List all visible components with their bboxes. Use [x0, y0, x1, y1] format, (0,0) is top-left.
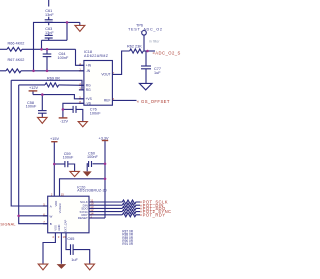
svg-text:A: A	[50, 205, 52, 209]
ground under C58	[38, 117, 48, 123]
svg-text:R66 4K02: R66 4K02	[8, 42, 25, 46]
svg-text:B: B	[50, 222, 52, 226]
svg-text:VOUT: VOUT	[101, 73, 110, 77]
svg-text:100nF: 100nF	[87, 155, 98, 159]
test point TP6	[142, 31, 147, 36]
resistor R69	[45, 83, 59, 87]
pin EXT_CAP stub down	[66, 233, 70, 250]
svg-text:RG: RG	[86, 84, 91, 88]
pin 2 stub	[79, 84, 84, 86]
resistor R88	[122, 203, 140, 207]
ground EXT_CAP	[85, 264, 95, 270]
svg-text:«POT_RDY: «POT_RDY	[140, 212, 166, 217]
svg-text:15: 15	[61, 192, 65, 196]
resistor R67	[6, 69, 21, 73]
svg-text:AD5293BRUZ-20: AD5293BRUZ-20	[77, 189, 107, 193]
pin VSS stub down	[43, 233, 55, 264]
ground GND filled	[57, 264, 67, 269]
resistor R66	[7, 47, 22, 51]
navy labels	[8, 9, 163, 262]
digital pot IC20 box	[48, 196, 89, 233]
capacitor C59	[54, 163, 64, 165]
svg-text:GND: GND	[57, 225, 61, 231]
svg-text:RESET: RESET	[78, 216, 88, 220]
pin B stub	[43, 223, 48, 225]
capacitor C60	[93, 163, 106, 165]
wire -VS riser	[63, 103, 84, 117]
svg-text:4: 4	[52, 235, 54, 239]
svg-text:1uF: 1uF	[71, 258, 78, 262]
wire VLOGIC feed	[60, 179, 106, 196]
wire R69 to pin2	[59, 84, 84, 86]
svg-text:VLOGIC: VLOGIC	[58, 203, 62, 213]
pin W stub	[43, 215, 48, 217]
wire RG loop top	[11, 80, 84, 90]
red net labels	[0, 50, 186, 226]
capacitor C64	[46, 49, 48, 54]
resistor R87	[122, 200, 140, 204]
capacitor C58	[41, 95, 43, 111]
ground under C59	[70, 171, 80, 176]
svg-text:-12V: -12V	[60, 120, 68, 124]
pin DIN wire	[89, 204, 122, 206]
svg-text:100nF: 100nF	[26, 105, 37, 109]
svg-text:13nF: 13nF	[45, 31, 54, 35]
svg-text:EXT_CAP: EXT_CAP	[63, 220, 67, 232]
resistor R62	[130, 49, 144, 53]
op-amp U1 IC18 box	[84, 61, 113, 106]
svg-text:3: 3	[58, 235, 60, 239]
capacitor C65	[70, 244, 72, 255]
resistor R91	[122, 213, 140, 217]
wire node A to +IN jog	[22, 48, 76, 50]
svg-text:+3.3V: +3.3V	[99, 137, 109, 141]
svg-text:AD622ARMZ: AD622ARMZ	[84, 54, 109, 58]
capacitor C76	[63, 108, 73, 110]
wire R66 left lead	[0, 48, 7, 50]
svg-text:+VS: +VS	[86, 97, 93, 101]
red pin numbers	[43, 62, 114, 239]
svg-text:VDD: VDD	[54, 201, 58, 207]
wire riser x33	[34, 22, 80, 70]
wire ground stub top	[79, 22, 81, 25]
capacitor C61	[48, 0, 50, 7]
wire W tap	[19, 215, 48, 217]
pin 4 stub	[79, 64, 84, 66]
svg-text:TEST_ADC_O2: TEST_ADC_O2	[128, 27, 163, 31]
wire node B to -IN	[21, 70, 84, 72]
wire +3.3V stem	[104, 141, 106, 218]
pin RESET wire	[89, 217, 105, 219]
svg-text:-VS: -VS	[86, 102, 92, 106]
svg-text:100nF: 100nF	[63, 155, 74, 159]
svg-text:16: 16	[63, 235, 67, 239]
pin GND stub down	[60, 233, 62, 264]
pin 1 stub	[79, 70, 84, 72]
svg-text:13nF: 13nF	[45, 13, 54, 17]
resistor R89	[122, 206, 140, 210]
pin A stub	[43, 205, 48, 207]
power bar +12V	[29, 90, 38, 92]
svg-text:in filter: in filter	[149, 40, 160, 44]
wire RG lower with resistor R69	[19, 84, 45, 86]
wire VOUT riser	[112, 51, 129, 74]
svg-text:100nF: 100nF	[58, 56, 69, 60]
svg-text:R67 4K02: R67 4K02	[8, 58, 25, 62]
svg-text:RG: RG	[86, 88, 91, 92]
wire +IN jog vertical	[76, 49, 84, 65]
wire C63 bottom rail	[42, 39, 68, 41]
wire loop to node X	[66, 22, 68, 40]
power/ground symbols in maroon	[29, 25, 109, 270]
svg-text:1uF: 1uF	[154, 71, 161, 75]
wire +12V rail to pin5	[32, 91, 34, 95]
ground under C77	[139, 83, 152, 90]
wire jog to node A	[41, 40, 43, 49]
power bar +3.3V	[102, 140, 108, 142]
rotated pin names IC20	[54, 201, 68, 232]
svg-text:R69 0R: R69 0R	[47, 76, 60, 80]
svg-text:_SIGNAL: _SIGNAL	[0, 222, 16, 226]
capacitor C77	[145, 51, 147, 66]
pin 3 stub	[79, 89, 84, 91]
svg-text:C65: C65	[67, 237, 74, 241]
svg-text:R62 23K: R62 23K	[127, 45, 142, 49]
power bar -12V	[59, 117, 68, 119]
svg-text:« GS_OFFSET: « GS_OFFSET	[137, 99, 170, 104]
ground top right	[75, 25, 85, 31]
svg-text:+IN: +IN	[86, 64, 92, 68]
svg-text:+12V: +12V	[29, 86, 38, 90]
ground under C76	[78, 122, 87, 127]
wire REF to GS_OFFSET	[112, 99, 136, 101]
pin 8 stub	[79, 102, 84, 104]
svg-text:W: W	[50, 214, 53, 218]
svg-text:-IN: -IN	[86, 69, 91, 73]
wire R62 to label	[143, 50, 155, 52]
resistor R90	[122, 210, 140, 214]
wire R67 left lead	[0, 70, 6, 72]
pin RDY wire	[89, 214, 122, 216]
ground under C60 filled	[83, 171, 92, 176]
capacitor C63	[48, 22, 50, 25]
wire long vertical 2	[19, 85, 48, 224]
pin SDO wire	[89, 207, 122, 209]
svg-text:«ADC_O2_SIG: «ADC_O2_SIG	[153, 50, 182, 55]
IC pin name texts	[50, 64, 111, 227]
svg-text:REF: REF	[104, 99, 111, 103]
svg-text:R91 0R: R91 0R	[122, 242, 134, 246]
ground VSS	[38, 264, 48, 270]
pin SYNC wire	[89, 211, 122, 213]
power bar +15V	[51, 141, 57, 143]
svg-text:+15V: +15V	[50, 137, 59, 141]
wire long vertical 1	[11, 80, 48, 206]
wire +15V stem to VDD	[53, 142, 55, 196]
pin SCLK wire	[89, 201, 122, 203]
svg-text:100nF: 100nF	[90, 112, 101, 116]
pin 5 stub	[79, 98, 84, 100]
